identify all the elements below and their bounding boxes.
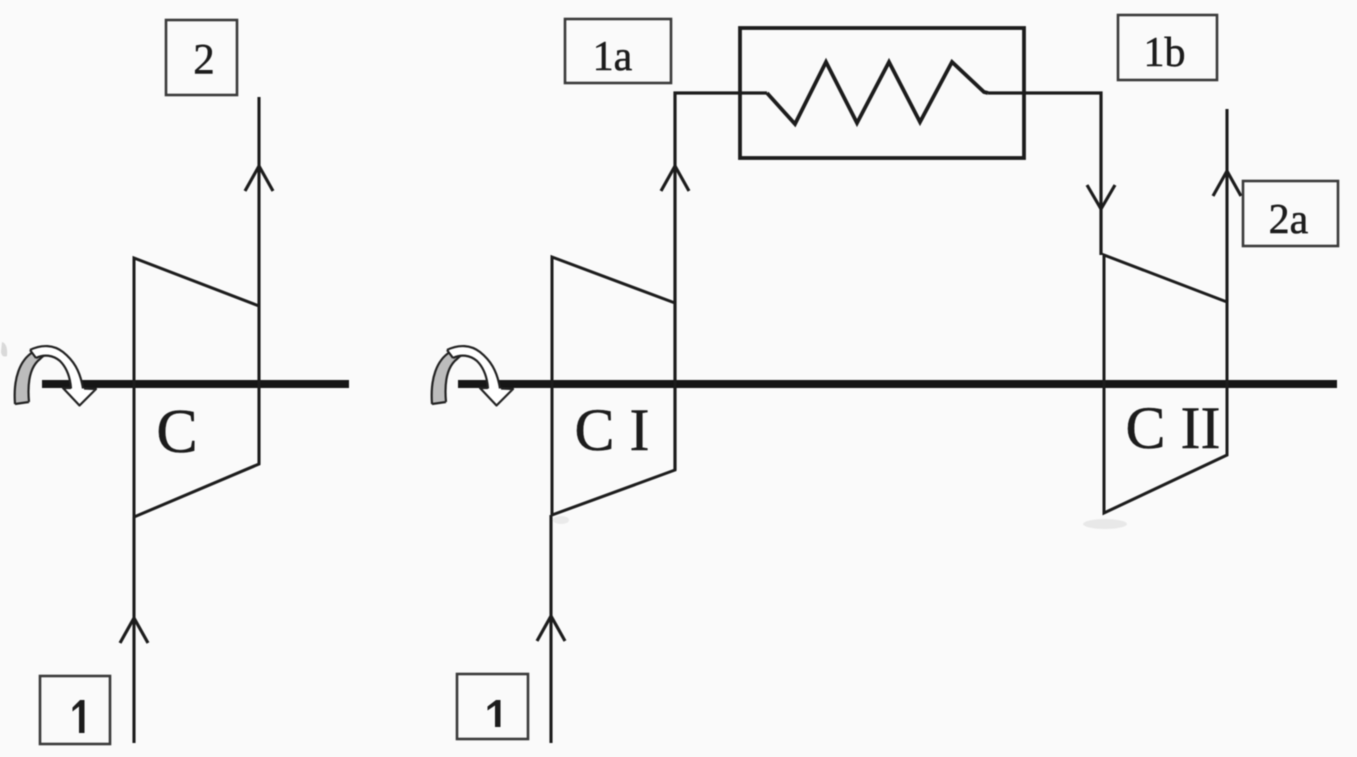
flow arrow on stream 2 — [245, 166, 273, 191]
rotation arrow on right shaft — [432, 346, 514, 406]
wire: C II outlet pipe — [1225, 109, 1228, 302]
intercooler coil (zigzag) — [767, 62, 988, 124]
flow arrow on stream 1b (downward) — [1087, 185, 1115, 209]
svg-text:2: 2 — [193, 37, 215, 84]
wire: C I inlet pipe — [549, 515, 552, 743]
shaft of two-stage compressor — [458, 380, 1337, 388]
flow arrow on stream 2a — [1213, 171, 1241, 196]
rotation arrow on left shaft — [15, 346, 97, 406]
stream label box 1 (right) — [457, 674, 528, 739]
faint scan smudge right of C II — [1083, 519, 1127, 529]
wire: intercooler to C II pipe — [988, 93, 1101, 255]
svg-text:C II: C II — [1126, 395, 1221, 461]
flow arrow on stream 1 (left) — [120, 618, 148, 643]
svg-text:1a: 1a — [593, 34, 633, 80]
wire: compressor C inlet pipe — [132, 517, 135, 743]
faint scan smudge below C — [553, 516, 569, 524]
wire: compressor C outlet pipe — [257, 97, 260, 464]
compressor C II — [1104, 255, 1227, 513]
svg-text:C: C — [156, 398, 197, 466]
stream label box 2a — [1243, 181, 1338, 246]
flow arrow on stream 1 (right) — [537, 616, 565, 641]
stream label box 1 (left) — [40, 676, 110, 744]
intercooler box — [740, 28, 1024, 158]
compressor C I — [552, 257, 675, 515]
svg-text:1b: 1b — [1144, 30, 1186, 76]
stream label box 1b — [1118, 15, 1217, 80]
compressor C — [134, 258, 259, 517]
stream label box 2 — [166, 20, 237, 95]
svg-text:C I: C I — [575, 397, 650, 463]
faint scan smudge left margin — [1, 342, 7, 357]
stream label box 1a — [565, 19, 671, 83]
flow arrow on stream 1a — [661, 166, 689, 191]
svg-text:2a: 2a — [1269, 197, 1309, 243]
shaft of single-stage compressor — [42, 380, 349, 388]
wire: C I outlet pipe to intercooler — [675, 93, 767, 470]
